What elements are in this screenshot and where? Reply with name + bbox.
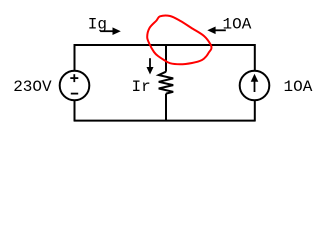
- wire top horizontal: [74, 44, 255, 46]
- wire left rail lower: [74, 100, 76, 121]
- voltage source minus sign: [71, 93, 78, 95]
- current source arrow up: [251, 74, 259, 92]
- wire right rail lower: [254, 100, 256, 121]
- resistor Ir zigzag: [159, 72, 174, 94]
- wire left rail upper: [74, 44, 76, 71]
- wire middle branch upper: [165, 44, 167, 72]
- red highlight loop around top node: [147, 16, 211, 65]
- wire right rail upper: [254, 44, 256, 71]
- wire middle branch lower: [165, 94, 167, 122]
- svg-text:Ir: Ir: [132, 78, 151, 96]
- arrow Ir down: [147, 58, 154, 74]
- wire bottom horizontal: [74, 120, 255, 122]
- svg-text:1OA: 1OA: [223, 16, 252, 34]
- arrow Ig right: [100, 27, 121, 35]
- arrow 10A left: [207, 27, 226, 35]
- svg-text:1OA: 1OA: [284, 78, 313, 96]
- current source 10A circle: [240, 71, 270, 101]
- voltage source plus sign: [70, 74, 78, 82]
- voltage source 230V circle: [60, 71, 90, 101]
- svg-text:23OV: 23OV: [13, 78, 52, 96]
